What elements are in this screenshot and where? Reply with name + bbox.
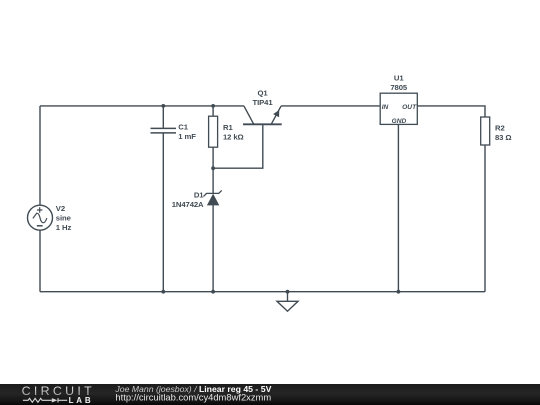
svg-text:R2: R2 <box>495 123 505 132</box>
svg-text:1 mF: 1 mF <box>178 132 196 141</box>
svg-text:V2: V2 <box>56 204 65 213</box>
svg-text:C1: C1 <box>178 123 188 132</box>
svg-text:OUT: OUT <box>402 104 417 111</box>
svg-text:R1: R1 <box>223 123 233 132</box>
svg-text:7805: 7805 <box>390 83 408 92</box>
svg-text:LAB: LAB <box>69 396 94 405</box>
svg-text:83 Ω: 83 Ω <box>495 133 511 142</box>
svg-text:IN: IN <box>382 104 389 111</box>
svg-text:sine: sine <box>56 213 72 222</box>
svg-text:12 kΩ: 12 kΩ <box>223 132 244 141</box>
svg-text:http://circuitlab.com/cy4dm8wf: http://circuitlab.com/cy4dm8wf2xzmm <box>115 391 271 402</box>
svg-text:Q1: Q1 <box>257 88 268 97</box>
svg-text:D1: D1 <box>194 191 204 200</box>
svg-text:TIP41: TIP41 <box>252 98 273 107</box>
svg-text:U1: U1 <box>394 74 404 83</box>
svg-text:GND: GND <box>392 118 407 125</box>
svg-text:1 Hz: 1 Hz <box>56 223 72 232</box>
svg-text:1N4742A: 1N4742A <box>172 200 204 209</box>
